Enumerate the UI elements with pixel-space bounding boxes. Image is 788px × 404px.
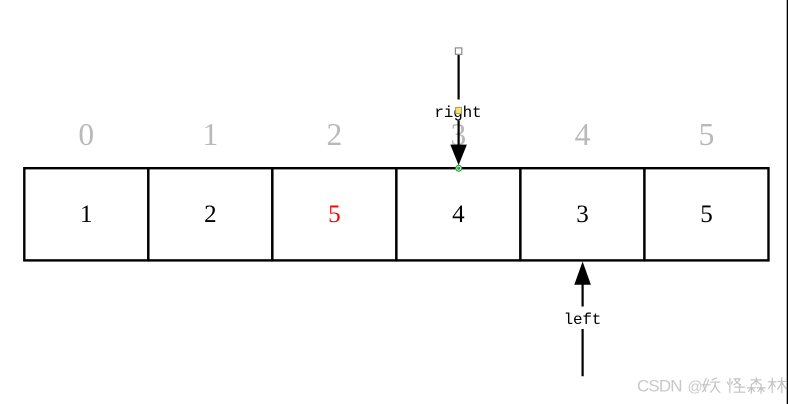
right pointer top endpoint handle (square) [455,48,461,54]
left pointer wire (vertical line) [581,284,583,376]
right pointer green connection endpoint [456,165,462,171]
array cell 2 [272,168,396,260]
watermark hanzi LIN [769,378,787,393]
svg-text:4: 4 [452,201,465,228]
right pointer yellow midpoint handle [456,107,462,113]
array cell 0 [24,168,148,260]
svg-text:5: 5 [328,201,341,228]
array cell 1 [148,168,272,260]
svg-text:@: @ [688,378,703,395]
svg-text:3: 3 [576,201,589,228]
watermark hanzi YAO [702,378,720,393]
right pointer arrowhead [450,145,467,166]
svg-text:5: 5 [699,117,715,152]
array cell 5 [644,168,768,260]
array cell 4 [520,168,644,260]
svg-text:CSDN: CSDN [637,376,682,395]
right pointer wire (vertical line) [458,55,460,148]
svg-text:4: 4 [575,117,591,152]
left pointer arrowhead [574,262,591,285]
right pointer label background [434,100,483,121]
right edge border line [787,0,788,404]
watermark hanzi SEN [748,378,765,393]
left pointer label background [560,307,605,330]
svg-text:left: left [564,311,602,329]
svg-text:0: 0 [78,117,94,152]
svg-text:2: 2 [204,201,217,228]
svg-text:1: 1 [202,117,218,152]
svg-text:2: 2 [327,117,343,152]
svg-text:5: 5 [700,201,713,228]
watermark hanzi GUAI [727,378,744,392]
svg-text:1: 1 [80,201,93,228]
array cell 3 [396,168,520,260]
